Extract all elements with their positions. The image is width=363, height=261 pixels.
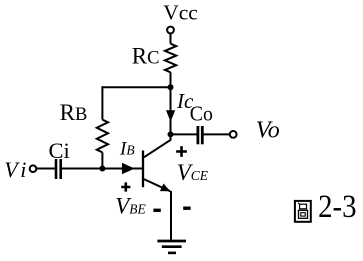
svg-text:Vo: Vo: [256, 117, 280, 143]
svg-text:VBE: VBE: [115, 193, 146, 218]
svg-text:VCE: VCE: [177, 160, 209, 185]
svg-text:i: i: [20, 157, 26, 182]
svg-text:RB: RB: [60, 100, 88, 125]
svg-text:V: V: [4, 157, 20, 182]
svg-text:2-3: 2-3: [318, 187, 356, 224]
svg-text:Ci: Ci: [49, 138, 70, 163]
svg-text:Ic: Ic: [176, 89, 194, 113]
svg-text:RC: RC: [132, 43, 160, 68]
svg-text:Vcc: Vcc: [163, 1, 198, 25]
svg-text:IB: IB: [119, 138, 135, 159]
